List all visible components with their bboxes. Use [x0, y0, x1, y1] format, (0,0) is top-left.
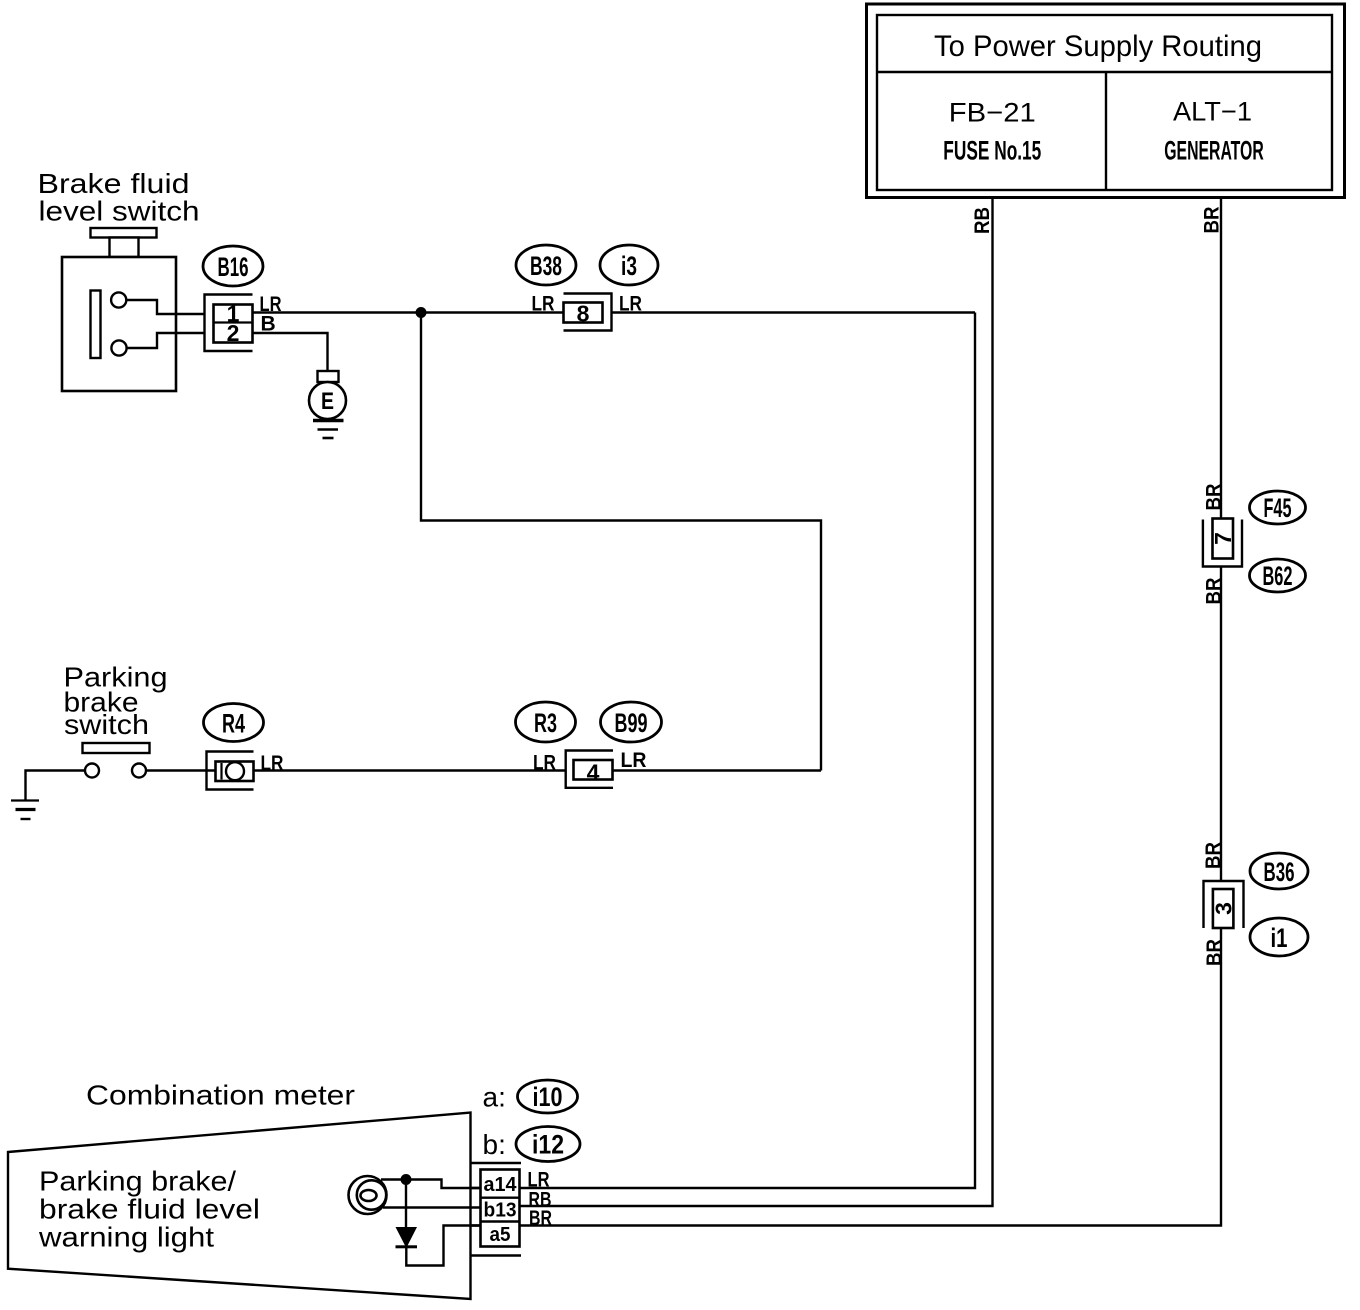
- svg-text:ALT−1: ALT−1: [1173, 97, 1252, 127]
- svg-text:R3: R3: [534, 708, 557, 738]
- svg-text:B99: B99: [615, 708, 648, 738]
- svg-text:i12: i12: [532, 1130, 564, 1160]
- svg-text:LR: LR: [533, 752, 556, 775]
- R4 pin tick: [220, 763, 222, 780]
- parking brake switch contact right: [132, 764, 146, 778]
- svg-text:LR: LR: [532, 293, 555, 316]
- svg-text:BR: BR: [1203, 578, 1226, 605]
- svg-text:warning light: warning light: [38, 1222, 214, 1253]
- svg-text:i3: i3: [621, 251, 637, 281]
- svg-text:LR: LR: [621, 749, 647, 772]
- connector B16 pin box: [214, 305, 253, 343]
- node junction lamp: [401, 1174, 412, 1185]
- wire pin2 to ground E: [253, 333, 328, 371]
- brake fluid level switch body: [62, 228, 176, 391]
- svg-text:LR: LR: [619, 293, 642, 316]
- connector 8 bracket: [564, 294, 612, 331]
- svg-text:BR: BR: [529, 1207, 552, 1230]
- svg-text:switch: switch: [64, 709, 149, 740]
- connector 8 pin box: [564, 303, 603, 323]
- wire BR between connectors: [1220, 567, 1222, 882]
- svg-text:E: E: [321, 388, 334, 415]
- wire lamp to a14: [381, 1180, 481, 1189]
- wire to ground left: [26, 771, 86, 801]
- svg-text:GENERATOR: GENERATOR: [1164, 136, 1264, 166]
- svg-text:a:: a:: [483, 1082, 506, 1113]
- connector B38 oval: [516, 245, 576, 285]
- svg-text:R4: R4: [222, 709, 245, 739]
- connector 4 bracket: [566, 751, 613, 788]
- svg-text:brake fluid level: brake fluid level: [39, 1194, 260, 1225]
- ground symbol under E: [313, 419, 344, 422]
- wire diode to a5: [406, 1226, 480, 1266]
- svg-text:7: 7: [1210, 532, 1236, 545]
- svg-text:b13: b13: [484, 1200, 517, 1222]
- connector B99 oval: [601, 702, 662, 742]
- svg-text:B62: B62: [1263, 561, 1293, 591]
- connector B62 oval: [1250, 559, 1306, 592]
- svg-text:FB−21: FB−21: [949, 98, 1036, 128]
- svg-text:3: 3: [1211, 902, 1237, 915]
- connector R4 pin box: [216, 762, 254, 782]
- connector B16 oval: [203, 246, 263, 286]
- connector B16 bracket: [205, 295, 253, 352]
- brake fluid switch contact 2: [111, 340, 126, 355]
- meter connector bracket: [471, 1162, 522, 1164]
- meter connector pin box: [481, 1170, 520, 1247]
- svg-text:To Power Supply Routing: To Power Supply Routing: [934, 30, 1262, 63]
- brake fluid switch contact 1: [111, 292, 126, 307]
- connector 7 bracket: [1203, 520, 1242, 567]
- connector 4 pin box: [574, 760, 613, 780]
- svg-text:2: 2: [227, 320, 240, 346]
- lamp warning light: [349, 1176, 387, 1214]
- connector 7 pin box: [1213, 519, 1234, 559]
- R4 pin circle: [226, 762, 244, 780]
- svg-text:level switch: level switch: [39, 196, 200, 227]
- wire LR vertical to combination meter: [442, 313, 976, 1189]
- connector R4 oval: [204, 704, 264, 742]
- wire BR to combination meter: [444, 928, 1222, 1226]
- svg-text:Brake fluid: Brake fluid: [38, 168, 190, 199]
- wire parking brake line: [146, 769, 566, 771]
- svg-text:B16: B16: [218, 252, 249, 282]
- wire BR from ALT-1: [1220, 197, 1222, 519]
- connector i12 oval: [516, 1127, 580, 1162]
- svg-text:B38: B38: [530, 251, 562, 281]
- ground E terminal box: [318, 371, 339, 382]
- node junction LR: [416, 307, 427, 318]
- wire junction to diode: [405, 1180, 407, 1228]
- connector i3 oval: [600, 245, 658, 285]
- power supply routing box: [867, 4, 1345, 198]
- svg-text:LR: LR: [261, 752, 284, 775]
- wire junction to parking brake line: [421, 313, 821, 771]
- svg-text:RB: RB: [971, 207, 994, 234]
- connector 3 pin box: [1213, 889, 1234, 928]
- svg-text:B36: B36: [1264, 857, 1295, 887]
- connector i10 oval: [518, 1080, 578, 1113]
- ground symbol left: [11, 799, 39, 801]
- svg-text:BR: BR: [1202, 842, 1225, 869]
- svg-text:F45: F45: [1264, 493, 1292, 523]
- svg-text:b:: b:: [483, 1129, 506, 1160]
- connector 3 bracket: [1204, 881, 1244, 928]
- wire contact2 to pin2: [127, 333, 204, 348]
- connector F45 oval: [1250, 491, 1306, 524]
- parking brake switch contact left: [85, 764, 99, 778]
- wire lamp to b13: [383, 1206, 520, 1208]
- connector i1 oval: [1250, 918, 1308, 956]
- combination meter body: [8, 1113, 471, 1300]
- svg-text:i10: i10: [533, 1082, 563, 1112]
- wire contact1 to pin1: [126, 300, 204, 314]
- connector R3 oval: [516, 702, 576, 742]
- svg-text:BR: BR: [1203, 939, 1226, 966]
- svg-text:BR: BR: [1201, 207, 1224, 234]
- ground E circle: [309, 382, 346, 419]
- wire LR top run: [252, 311, 564, 313]
- svg-text:FUSE No.15: FUSE No.15: [943, 136, 1041, 166]
- svg-text:a5: a5: [490, 1224, 511, 1246]
- svg-text:Combination meter: Combination meter: [86, 1080, 355, 1111]
- svg-text:BR: BR: [1203, 484, 1226, 511]
- diode D1: [396, 1227, 418, 1248]
- connector R4 bracket: [207, 752, 254, 790]
- svg-text:a14: a14: [484, 1174, 518, 1196]
- svg-text:Parking brake/: Parking brake/: [39, 1166, 236, 1197]
- svg-text:8: 8: [577, 301, 590, 327]
- svg-text:4: 4: [587, 760, 600, 786]
- wire RB from FB-21: [520, 197, 993, 1206]
- connector B36 oval: [1250, 853, 1308, 889]
- parking brake switch bar: [83, 743, 150, 753]
- svg-text:i1: i1: [1271, 923, 1288, 953]
